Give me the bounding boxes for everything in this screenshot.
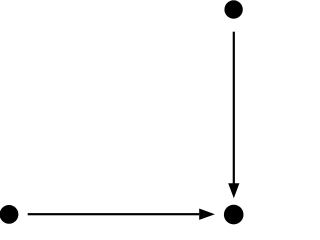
node top-right [224, 0, 242, 18]
arrowhead down [228, 183, 239, 198]
wire horizontal (bottom-left to bottom-right) [28, 213, 200, 215]
arrowhead right [199, 209, 215, 220]
node bottom-left [0, 205, 18, 224]
wire vertical (top-right to bottom-right) [233, 32, 235, 184]
node bottom-right [224, 205, 244, 225]
